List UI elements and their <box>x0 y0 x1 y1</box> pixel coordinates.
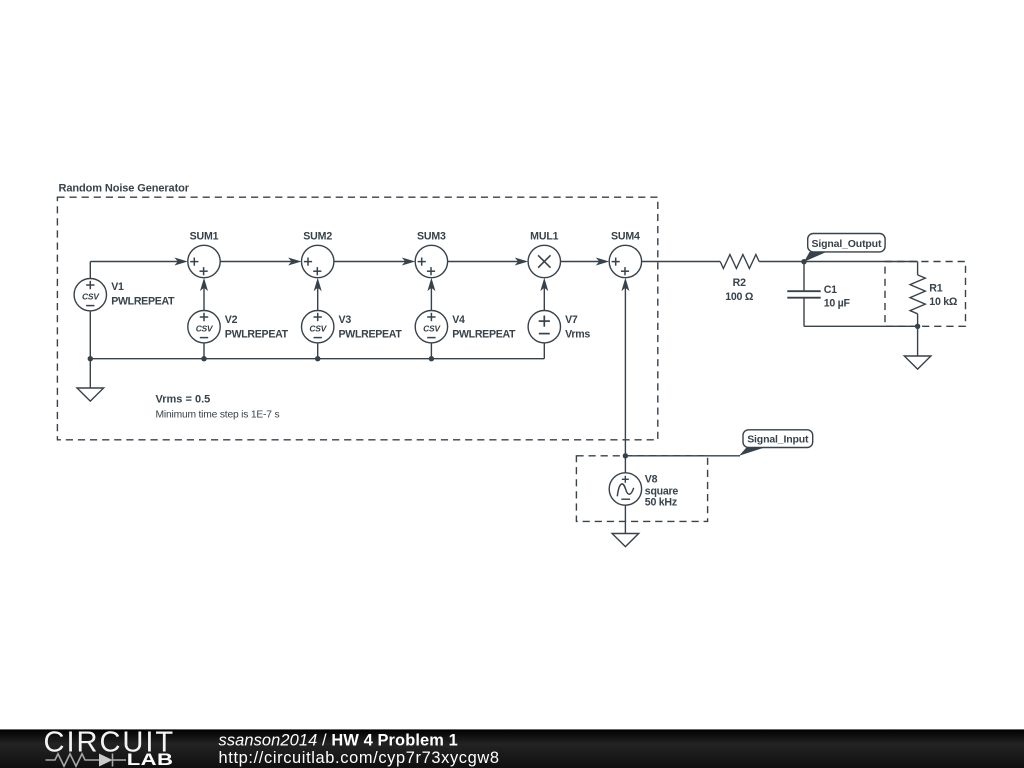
svg-text:SUM1: SUM1 <box>190 231 219 243</box>
svg-text:LAB: LAB <box>127 750 174 768</box>
svg-text:V8: V8 <box>645 473 658 485</box>
svg-text:CSV: CSV <box>196 324 214 334</box>
svg-text:Minimum time step is 1E-7 s: Minimum time step is 1E-7 s <box>156 410 280 421</box>
svg-text:50 kHz: 50 kHz <box>645 497 677 509</box>
svg-text:R1: R1 <box>929 282 942 294</box>
svg-text:10 kΩ: 10 kΩ <box>929 296 958 308</box>
svg-text:V2: V2 <box>225 314 238 326</box>
svg-text:Vrms: Vrms <box>565 328 590 340</box>
svg-text:Random Noise Generator: Random Noise Generator <box>59 183 190 195</box>
svg-text:10 µF: 10 µF <box>824 297 851 309</box>
svg-text:http://circuitlab.com/cyp7r73x: http://circuitlab.com/cyp7r73xycgw8 <box>219 749 500 767</box>
svg-text:SUM4: SUM4 <box>611 231 640 243</box>
svg-text:C1: C1 <box>824 284 837 296</box>
svg-text:Signal_Input: Signal_Input <box>747 434 809 446</box>
svg-text:V3: V3 <box>339 314 352 326</box>
svg-text:100 Ω: 100 Ω <box>725 291 754 303</box>
svg-text:Signal_Output: Signal_Output <box>812 238 882 250</box>
svg-text:MUL1: MUL1 <box>530 231 558 243</box>
svg-text:R2: R2 <box>733 277 746 289</box>
svg-text:SUM2: SUM2 <box>303 231 332 243</box>
svg-text:PWLREPEAT: PWLREPEAT <box>452 328 516 340</box>
svg-text:PWLREPEAT: PWLREPEAT <box>225 328 289 340</box>
svg-text:V7: V7 <box>565 314 578 326</box>
svg-text:Vrms = 0.5: Vrms = 0.5 <box>156 393 211 405</box>
svg-text:CSV: CSV <box>309 324 327 334</box>
svg-text:ssanson2014 / HW 4 Problem 1: ssanson2014 / HW 4 Problem 1 <box>219 731 458 749</box>
svg-text:CSV: CSV <box>423 324 441 334</box>
svg-text:PWLREPEAT: PWLREPEAT <box>111 295 175 307</box>
svg-text:CSV: CSV <box>82 292 100 302</box>
svg-text:V1: V1 <box>111 281 124 293</box>
svg-text:SUM3: SUM3 <box>417 231 446 243</box>
svg-text:V4: V4 <box>452 314 465 326</box>
svg-text:square: square <box>645 485 679 497</box>
svg-text:PWLREPEAT: PWLREPEAT <box>339 328 403 340</box>
